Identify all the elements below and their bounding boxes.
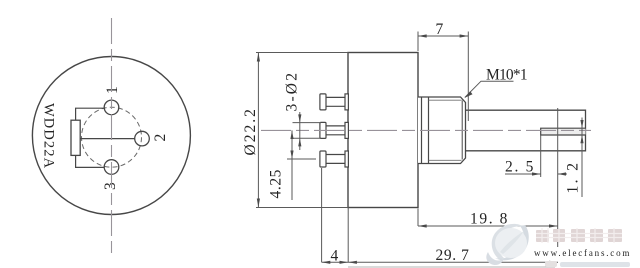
svg-text:4.25: 4.25 xyxy=(268,169,285,199)
svg-text:3-Ø2: 3-Ø2 xyxy=(284,71,301,112)
svg-text:M10*1: M10*1 xyxy=(486,67,527,84)
svg-text:Ø22.2: Ø22.2 xyxy=(242,107,259,155)
svg-text:1. 2: 1. 2 xyxy=(565,161,582,194)
svg-text:3: 3 xyxy=(102,182,119,190)
svg-text:2. 5: 2. 5 xyxy=(505,159,535,176)
svg-text:29. 7: 29. 7 xyxy=(436,247,470,264)
svg-text:2: 2 xyxy=(152,134,169,142)
svg-text:WDD22A: WDD22A xyxy=(41,103,57,169)
svg-text:1: 1 xyxy=(104,86,121,94)
svg-text:4: 4 xyxy=(331,248,339,265)
svg-text:19. 8: 19. 8 xyxy=(470,211,509,228)
svg-text:7: 7 xyxy=(436,21,444,38)
svg-text:www.elecfans.com: www.elecfans.com xyxy=(534,248,631,258)
